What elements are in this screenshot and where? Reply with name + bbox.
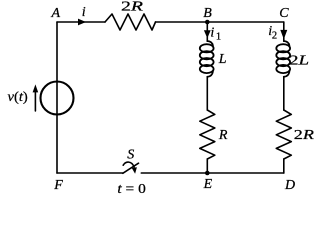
junction dot node B [205, 20, 210, 25]
svg-text:C: C [279, 6, 289, 21]
svg-text:1: 1 [216, 31, 221, 42]
resistor 2R right column [276, 110, 291, 159]
wire resistor 2R to node D [283, 159, 285, 173]
svg-text:R: R [218, 128, 228, 143]
current arrow i on top wire [78, 19, 86, 26]
voltage source v(t) circle [41, 82, 74, 115]
svg-text:S: S [127, 147, 134, 162]
current arrow i2 below node C [280, 30, 287, 39]
wire inductor L to resistor R [206, 77, 208, 110]
inductor 2L coil [276, 41, 290, 77]
svg-text:L: L [218, 52, 227, 67]
wire node B down to inductor L [206, 22, 208, 41]
svg-text:i: i [82, 5, 86, 20]
svg-text:2: 2 [272, 30, 277, 41]
current arrow i1 below node B [204, 30, 211, 38]
source arrow v(t) line [34, 90, 36, 111]
wire left side lower to F [56, 115, 58, 174]
svg-text:B: B [203, 6, 212, 21]
junction dot node E [205, 171, 210, 176]
svg-text:F: F [53, 178, 63, 193]
wire through source [56, 82, 58, 115]
resistor R middle column [200, 110, 215, 159]
wire top-left A to resistor [57, 21, 105, 23]
svg-text:D: D [284, 178, 295, 193]
switch arrow head [132, 167, 137, 174]
svg-text:v(t): v(t) [8, 90, 29, 105]
wire left side upper [56, 22, 58, 82]
wire node B to node C [207, 21, 283, 23]
svg-text:2R: 2R [294, 128, 315, 143]
wire resistor to node B [156, 21, 208, 23]
svg-text:E: E [203, 177, 213, 192]
svg-text:A: A [51, 6, 61, 21]
wire node C down to inductor 2L [283, 22, 285, 41]
svg-text:t = 0: t = 0 [117, 182, 145, 197]
inductor L coil [200, 41, 214, 77]
wire resistor R to node E [206, 159, 208, 173]
switch closing arrow curve [123, 162, 134, 167]
source arrow head [33, 84, 39, 92]
resistor 2R top [105, 14, 156, 30]
svg-text:2L: 2L [289, 53, 309, 68]
wire inductor 2L to resistor 2R right [283, 77, 285, 110]
wire node E to node D [207, 172, 283, 174]
svg-text:2R: 2R [121, 0, 144, 14]
svg-text:i: i [210, 26, 214, 41]
wire switch to node E [141, 172, 207, 174]
wire bottom F to switch [57, 172, 123, 174]
switch S blade [123, 163, 139, 173]
